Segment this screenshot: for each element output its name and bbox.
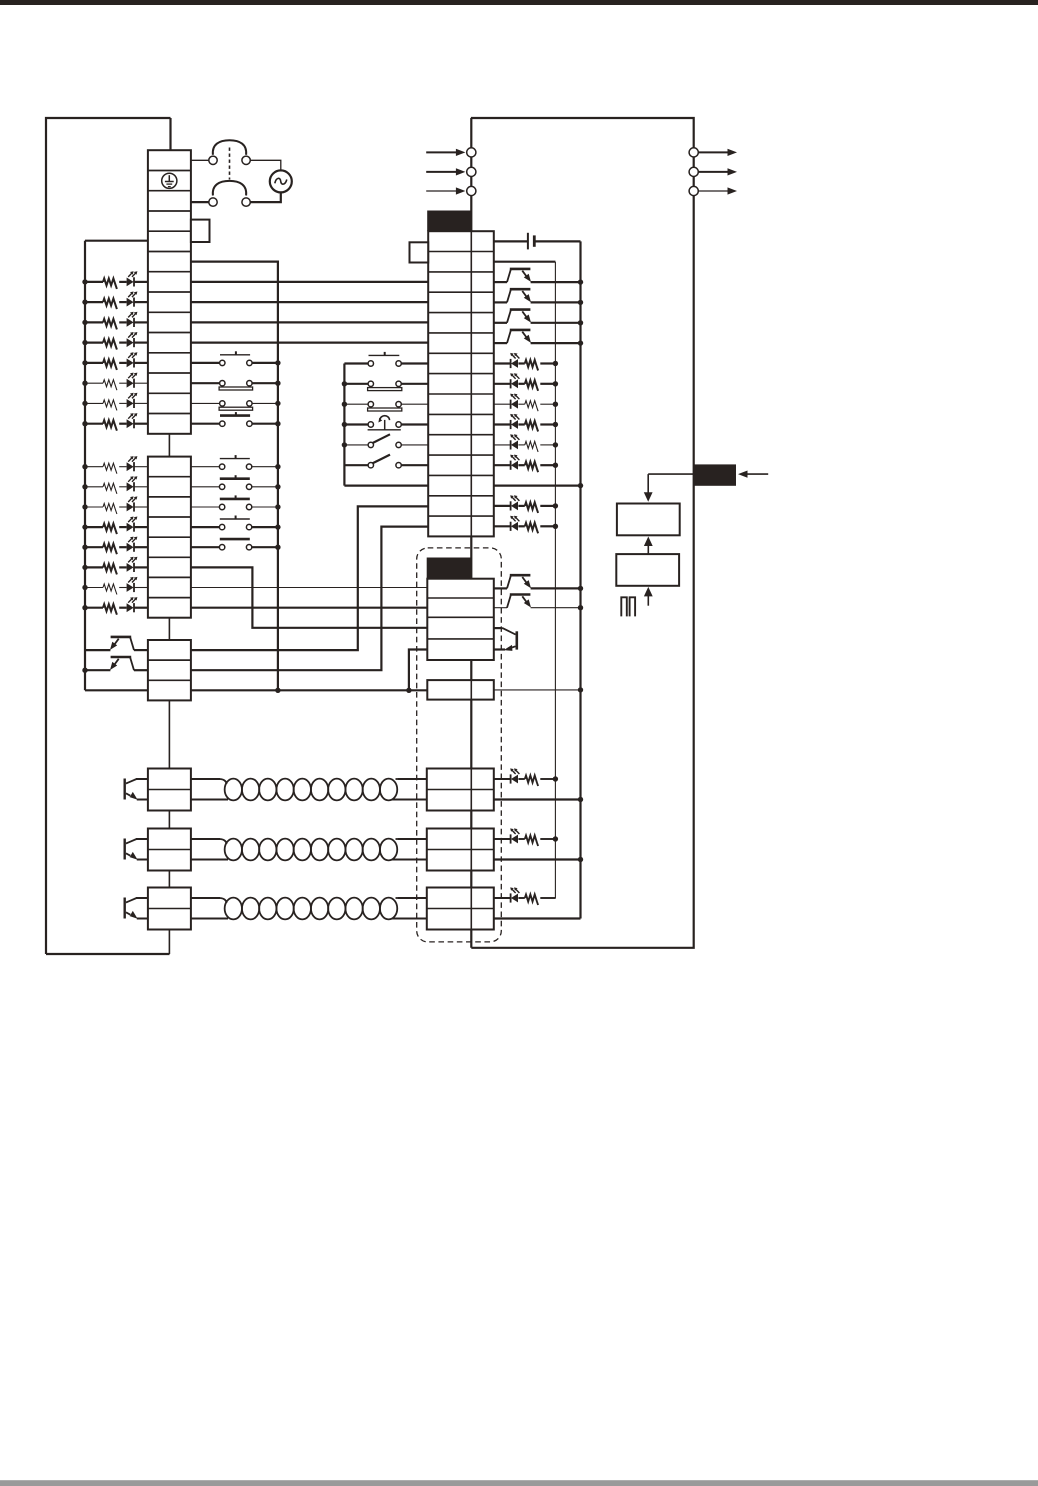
input opto LED + resistor row A5 [82, 360, 87, 365]
pushbutton NC switch row M9 [344, 403, 368, 405]
line driver transistor block 2 [123, 839, 125, 860]
input opto LED + resistor row A4 [82, 340, 87, 345]
wire row B7 to lower connector [191, 587, 427, 589]
encoder LED + resistor block 1 [494, 778, 511, 780]
left terminal strip CN-C block [148, 640, 191, 700]
input opto LED + resistor row M15 [494, 525, 511, 527]
line driver transistor block 3 [123, 898, 125, 919]
twisted pair cable 1 [191, 778, 220, 780]
open collector output transistor [494, 342, 507, 344]
wire row C2 elbow up to middle connector [191, 527, 428, 671]
wire row B6 elbow to lower connector [191, 567, 427, 627]
center link wire between strip segments A-B [168, 434, 170, 457]
encoder input block 1 [427, 769, 494, 811]
middle switch bank rail [343, 364, 345, 486]
breaker mechanical linkage dashed [229, 148, 231, 180]
wire row5 to LED rail [85, 240, 148, 242]
row M13 left wire to switch rail [344, 485, 428, 487]
input opto LED + resistor row B3 [82, 504, 87, 509]
open collector output transistor [494, 301, 507, 303]
input opto LED + resistor row M11 [494, 444, 511, 446]
bottom gray footer rule [0, 1480, 1038, 1486]
middle strip mounting tab [410, 242, 429, 262]
center link wire between strip segments B-C [168, 618, 170, 640]
arrow between function blocks [647, 545, 649, 554]
left pulse output block 1 [148, 769, 191, 811]
common wire to bus B [494, 689, 581, 691]
signal wire left strip to middle connector row 3 [191, 321, 428, 323]
pushbutton NO switch row A11 [191, 362, 220, 364]
input opto LED + resistor row M8 [494, 383, 511, 385]
twisted pair cable 3 [191, 897, 220, 899]
knife switch row M12 [344, 464, 368, 466]
signal wire left strip to middle connector row 2 [191, 301, 428, 303]
output transistor row C2 [134, 669, 148, 671]
wire row C1 elbow up to middle connector [191, 506, 428, 650]
bus line B vertical [579, 241, 581, 918]
left terminal strip CN-B block [148, 457, 191, 618]
open collector output transistor [494, 281, 507, 283]
left box bottom edge [46, 953, 170, 955]
input opto LED + resistor row A6 [82, 381, 87, 386]
input opto LED + resistor row A3 [82, 320, 87, 325]
input opto LED + resistor row B6 [82, 565, 87, 570]
left LED common rail [84, 282, 86, 690]
input opto LED + resistor row M10 [494, 423, 511, 425]
middle connector black header [427, 211, 471, 232]
open collector output transistor [494, 322, 507, 324]
three phase input terminals [426, 151, 457, 153]
encoder LED + resistor block 2 [494, 838, 511, 840]
pushbutton switch row B5 [191, 546, 220, 548]
middle connector terminal grid [428, 231, 494, 536]
input opto LED + resistor row M12 [494, 464, 511, 466]
input opto LED + resistor row M7 [494, 362, 511, 364]
circuit breaker contact bottom pole [191, 201, 209, 203]
encoder return wire block 1 [494, 798, 581, 800]
encoder return wire block 2 [494, 858, 581, 860]
pushbutton NC switch row M8 [344, 383, 368, 385]
arrow into function block 2 [647, 595, 649, 605]
wire row B8 to lower connector [191, 607, 427, 609]
input opto LED + resistor row B2 [82, 484, 87, 489]
pushbutton switch row B1 [191, 466, 220, 468]
pushbutton NC switch row A12 [191, 382, 220, 384]
middle connector vertical spine [470, 118, 472, 948]
wire breaker to AC source bottom [250, 192, 280, 202]
signal wire left strip to middle connector row 4 [191, 342, 428, 344]
bus line A from row 2 [494, 261, 556, 263]
common emitter wire row C3 [85, 689, 148, 691]
AC power source symbol [270, 170, 292, 192]
input opto LED + resistor row M9 [494, 403, 511, 405]
pushbutton switch row B3 [191, 506, 220, 508]
dashed shielded cable boundary [417, 548, 502, 942]
twisted pair cable 2 [191, 838, 220, 840]
pushbutton switch row B2 [191, 486, 220, 488]
input opto LED + resistor row A8 [82, 421, 87, 426]
output transistor row C1 [134, 649, 148, 651]
wire module to block diagram [648, 473, 694, 475]
input opto LED + resistor row A2 [82, 299, 87, 304]
input opto LED + resistor row B5 [82, 545, 87, 550]
pushbutton NO switch row M7 [344, 362, 368, 364]
proximity actuated switch row M10 [344, 423, 368, 425]
input opto LED + resistor row B4 [82, 524, 87, 529]
encoder LED + resistor block 3 [494, 897, 511, 899]
line driver transistor block 1 [123, 779, 125, 800]
input opto LED + resistor row A1 [82, 279, 87, 284]
protective earth ground symbol [162, 173, 177, 188]
left pulse output block 2 [148, 829, 191, 871]
circuit breaker contact top pole [191, 159, 209, 161]
capacitor C1 [494, 240, 528, 242]
encoder return wire block 3 [494, 917, 581, 919]
input transistor rows D3-D4 [494, 627, 503, 629]
input opto LED + resistor row A7 [82, 401, 87, 406]
input opto LED + resistor row B1 [82, 464, 87, 469]
knife switch row M11 [344, 444, 368, 446]
pushbutton NC switch row A13 [191, 402, 220, 404]
arrow into interface module [747, 473, 769, 475]
output transistor row D1 [494, 587, 507, 589]
right common rail from row6 [191, 262, 278, 691]
function block 1 [617, 504, 680, 536]
three phase output terminals [689, 148, 698, 157]
interface black module [694, 464, 736, 485]
function block 2 [616, 554, 679, 586]
left pulse output block 3 [148, 888, 191, 930]
encoder input block 2 [427, 829, 494, 871]
wire row C3 to lower connector common [191, 689, 427, 691]
wire from top edge into strip [169, 118, 171, 150]
right device outline box [471, 118, 694, 948]
pulse train symbol [621, 597, 627, 616]
left strip mounting tab [191, 220, 210, 242]
row M13 common wire to bus B [494, 485, 581, 487]
left device outline box [46, 118, 171, 954]
pushbutton NO switch row A14 [191, 423, 220, 425]
center link wire pulse block 3 to bottom [168, 930, 170, 955]
input opto LED + resistor row B7 [82, 585, 87, 590]
signal wire left strip to middle connector row 1 [191, 281, 428, 283]
center link wire between pulse blocks [168, 871, 170, 888]
encoder input block 3 [427, 888, 494, 930]
input opto LED + resistor row B8 [82, 605, 87, 610]
lower connector terminal grid D [427, 579, 494, 660]
branch wire up to connector row D4 [409, 650, 427, 691]
center link wire to pulse block 1 [168, 700, 170, 768]
single common terminal block [427, 680, 494, 700]
wire breaker to AC source top [250, 160, 280, 170]
center link wire between pulse blocks [168, 811, 170, 829]
lower connector black header [427, 558, 472, 579]
top black header bar [0, 0, 1038, 5]
output transistor row D2 [494, 607, 507, 609]
pushbutton switch row B4 [191, 526, 220, 528]
input opto LED + resistor row M14 [494, 505, 511, 507]
left terminal strip CN-A block [148, 150, 191, 434]
